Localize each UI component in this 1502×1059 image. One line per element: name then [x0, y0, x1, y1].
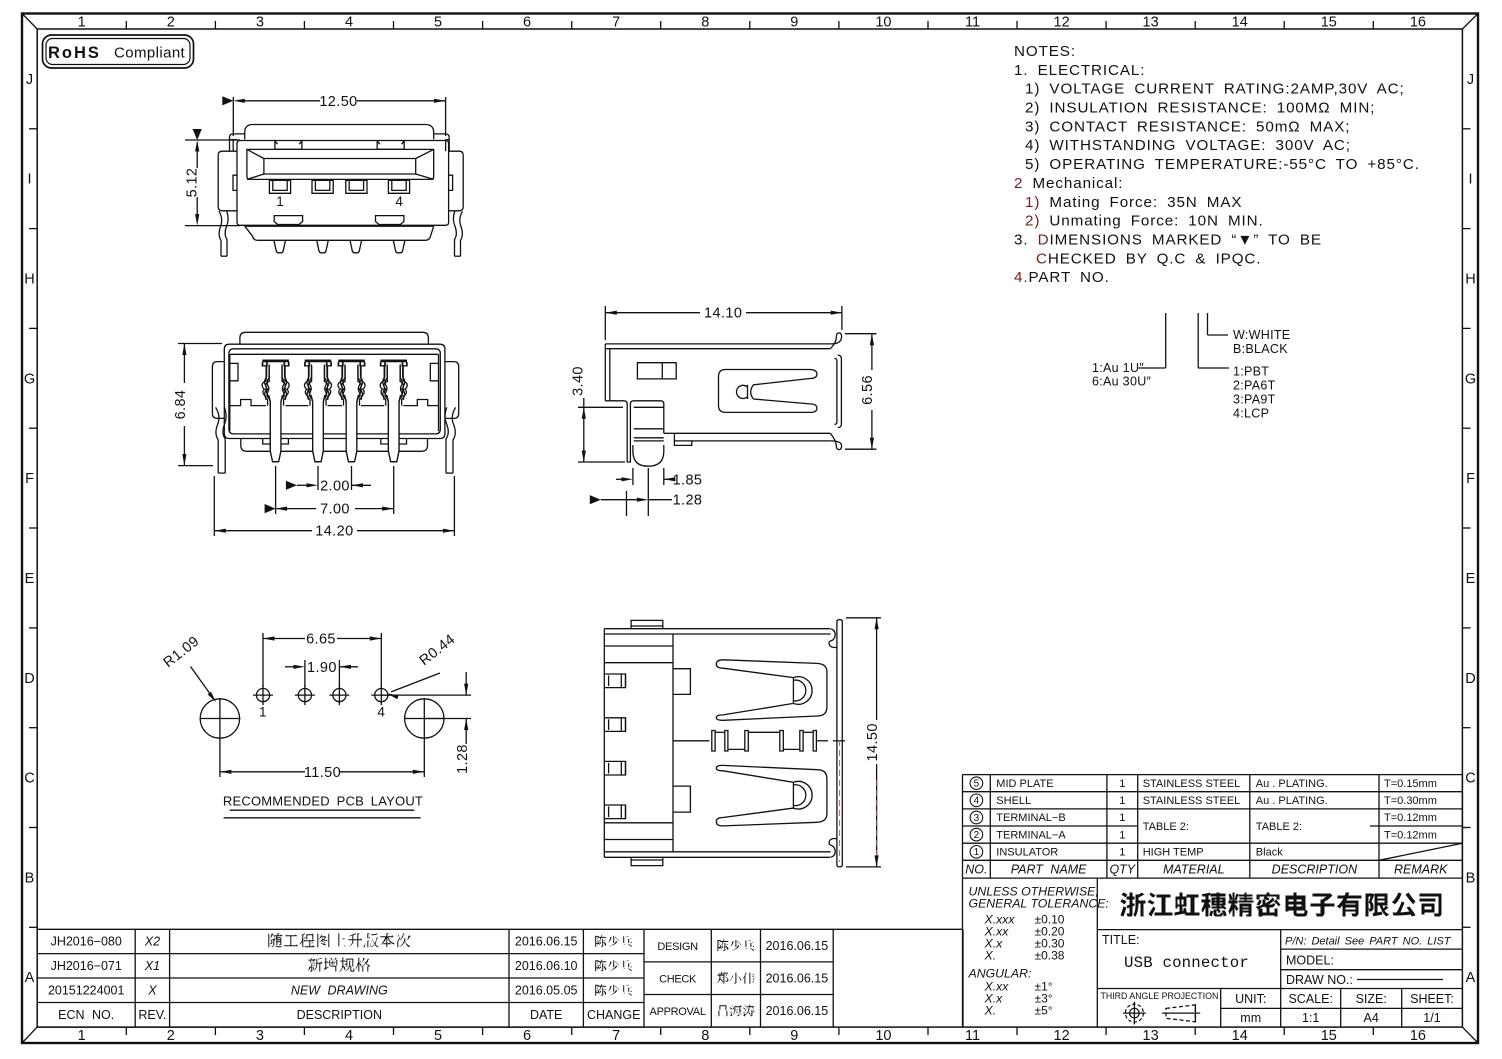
right wall hooks: [830, 333, 841, 349]
svg-text:1.28: 1.28: [455, 744, 471, 774]
svg-text:W:WHITE: W:WHITE: [1233, 328, 1290, 342]
svg-text:APPROVAL: APPROVAL: [650, 1006, 706, 1018]
svg-text:2:PA6T: 2:PA6T: [1233, 379, 1276, 393]
svg-text:1: 1: [1119, 795, 1125, 807]
svg-text:B: B: [1466, 870, 1476, 886]
svg-text:11: 11: [965, 15, 980, 31]
side latch windows: [233, 175, 237, 190]
svg-text:A: A: [1466, 970, 1476, 986]
svg-text:X2: X2: [144, 935, 160, 949]
dimension 6.56: [845, 333, 877, 335]
rear legs: [216, 407, 219, 473]
svg-text:X1: X1: [144, 959, 160, 973]
svg-text:4: 4: [974, 796, 980, 807]
svg-text:TERMINAL−A: TERMINAL−A: [996, 829, 1066, 841]
insulator block: [230, 353, 439, 355]
dimension 1.85: [632, 468, 634, 485]
top tabs: [631, 620, 663, 628]
dimension 12.50: [232, 97, 234, 136]
side wings: [218, 151, 237, 211]
mounting legs: [219, 211, 222, 256]
svg-text:mm: mm: [1240, 1011, 1261, 1025]
rear view: [173, 332, 459, 539]
approval table: [644, 929, 963, 1027]
svg-text:THIRD ANGLE PROJECTION: THIRD ANGLE PROJECTION: [1101, 991, 1219, 1001]
svg-text:1) VOLTAGE CURRENT RATING:2AMP: 1) VOLTAGE CURRENT RATING:2AMP,30V AC;: [1025, 81, 1405, 98]
svg-text:I: I: [27, 172, 31, 188]
svg-text:8: 8: [701, 15, 709, 31]
svg-text:H: H: [24, 272, 34, 288]
terminals: [262, 360, 289, 363]
svg-text:1: 1: [974, 847, 980, 858]
svg-text:1) Mating Force: 35N MAX: 1) Mating Force: 35N MAX: [1025, 194, 1242, 211]
notes text block: [1014, 43, 1420, 286]
rear top flange: [240, 332, 429, 344]
bottom pins: [274, 240, 286, 253]
svg-text:3: 3: [256, 1028, 264, 1044]
svg-text:5: 5: [974, 779, 980, 790]
svg-text:X.: X.: [984, 949, 997, 963]
side shell body: [605, 343, 831, 345]
rear bottom flange: [241, 439, 428, 452]
pin tail slots: [604, 674, 625, 688]
svg-text:T=0.12mm: T=0.12mm: [1384, 812, 1437, 824]
svg-text:CHECK: CHECK: [659, 973, 697, 985]
svg-text:11.50: 11.50: [304, 765, 341, 781]
bottom notches: [274, 216, 302, 225]
svg-text:Compliant: Compliant: [114, 45, 186, 62]
title block company name: [1097, 893, 1462, 930]
svg-text:A4: A4: [1364, 1011, 1379, 1025]
svg-text:SIZE:: SIZE:: [1356, 992, 1387, 1006]
svg-text:13: 13: [1143, 1028, 1159, 1044]
svg-text:12.50: 12.50: [319, 94, 357, 110]
svg-text:RoHS: RoHS: [48, 44, 101, 62]
svg-text:UNIT:: UNIT:: [1235, 992, 1266, 1006]
svg-text:2: 2: [974, 830, 980, 841]
svg-text:F: F: [1466, 471, 1475, 487]
svg-text:MODEL:: MODEL:: [1286, 954, 1334, 968]
svg-text:20151224001: 20151224001: [48, 984, 125, 998]
dimension 14.10: [604, 306, 606, 340]
svg-text:±5°: ±5°: [1035, 1004, 1053, 1018]
svg-text:G: G: [1465, 371, 1476, 387]
svg-text:REMARK: REMARK: [1394, 862, 1448, 876]
svg-text:1: 1: [259, 705, 267, 720]
svg-text:T=0.30mm: T=0.30mm: [1384, 795, 1437, 807]
svg-text:3: 3: [256, 15, 264, 31]
svg-text:H: H: [1465, 272, 1475, 288]
svg-text:7: 7: [612, 1028, 620, 1044]
svg-text:2) Unmating Force: 10N MIN.: 2) Unmating Force: 10N MIN.: [1025, 213, 1264, 230]
svg-text:GENERAL TOLERANCE:: GENERAL TOLERANCE:: [969, 897, 1109, 911]
svg-text:C: C: [24, 771, 34, 787]
svg-text:2 Mechanical:: 2 Mechanical:: [1014, 175, 1123, 192]
parts table: [963, 775, 1463, 879]
svg-text:12: 12: [1054, 15, 1070, 31]
svg-text:G: G: [24, 371, 35, 387]
svg-text:15: 15: [1321, 15, 1337, 31]
svg-text:CHANGE: CHANGE: [587, 1008, 640, 1022]
svg-text:3. DIMENSIONS MARKED “▼” TO BE: 3. DIMENSIONS MARKED “▼” TO BE: [1014, 232, 1322, 249]
svg-text:T=0.15mm: T=0.15mm: [1384, 778, 1437, 790]
center bosses: [673, 669, 690, 695]
svg-text:6.65: 6.65: [306, 632, 336, 648]
svg-text:1/1: 1/1: [1423, 1011, 1440, 1025]
svg-text:1: 1: [1119, 847, 1125, 859]
svg-text:4) WITHSTANDING VOLTAGE: 300V: 4) WITHSTANDING VOLTAGE: 300V AC;: [1025, 137, 1351, 154]
svg-text:5: 5: [434, 1028, 442, 1044]
bottom wall: [674, 432, 830, 434]
svg-text:PART NAME: PART NAME: [1011, 862, 1087, 876]
svg-text:14: 14: [1232, 1028, 1248, 1044]
svg-text:1.28: 1.28: [673, 493, 703, 509]
svg-text:4: 4: [377, 705, 385, 720]
svg-text:DESCRIPTION: DESCRIPTION: [1272, 862, 1358, 876]
contact windows 1-4: [269, 180, 290, 193]
svg-text:2: 2: [167, 1028, 175, 1044]
tolerance block: [963, 878, 1109, 1027]
svg-text:TITLE:: TITLE:: [1102, 933, 1140, 947]
svg-text:2) INSULATION RESISTANCE: 100M: 2) INSULATION RESISTANCE: 100MΩ MIN;: [1025, 100, 1375, 117]
dimension 1.28 pcb: [465, 672, 467, 695]
side view: [571, 306, 877, 516]
dimension 1.90: [304, 660, 306, 687]
svg-text:12: 12: [1054, 1028, 1070, 1044]
svg-text:D: D: [1465, 671, 1475, 687]
svg-text:1: 1: [78, 15, 86, 31]
svg-text:STAINLESS STEEL: STAINLESS STEEL: [1143, 778, 1241, 790]
svg-text:ANGULAR:: ANGULAR:: [968, 967, 1032, 981]
svg-text:5.12: 5.12: [185, 168, 201, 198]
svg-text:2016.06.15: 2016.06.15: [766, 939, 829, 953]
svg-text:USB connector: USB connector: [1124, 954, 1249, 972]
right shell plate: [836, 622, 838, 866]
rear bottom tabs: [263, 439, 289, 447]
svg-text:Au . PLATING.: Au . PLATING.: [1256, 795, 1328, 807]
dimension 11.50: [219, 739, 221, 777]
latch hole: [637, 363, 676, 379]
svg-text:JH2016−080: JH2016−080: [51, 935, 122, 949]
svg-text:14: 14: [1232, 15, 1248, 31]
svg-text:1:Au 1U″: 1:Au 1U″: [1092, 361, 1144, 375]
svg-text:NEW DRAWING: NEW DRAWING: [291, 984, 388, 998]
top view insulator: [604, 628, 830, 630]
svg-text:2.00: 2.00: [320, 478, 350, 494]
svg-text:3.40: 3.40: [571, 366, 587, 396]
mounting hole right: [405, 699, 444, 738]
svg-text:3: 3: [974, 813, 980, 824]
svg-text:Au . PLATING.: Au . PLATING.: [1256, 778, 1328, 790]
svg-text:Black: Black: [1256, 847, 1283, 859]
dimension 6.65: [262, 633, 264, 687]
svg-text:8: 8: [701, 1028, 709, 1044]
svg-text:E: E: [25, 571, 35, 587]
svg-text:DATE: DATE: [530, 1008, 562, 1022]
svg-text:5: 5: [434, 15, 442, 31]
svg-text:13: 13: [1143, 15, 1159, 31]
svg-text:±0.38: ±0.38: [1035, 949, 1065, 963]
back flange: [245, 125, 434, 140]
svg-text:6:Au 30U″: 6:Au 30U″: [1092, 375, 1152, 389]
svg-text:1:PBT: 1:PBT: [1233, 365, 1269, 379]
top view: [604, 618, 881, 867]
svg-text:J: J: [26, 72, 33, 88]
svg-text:2016.06.15: 2016.06.15: [515, 935, 578, 949]
svg-text:2016.06.15: 2016.06.15: [766, 1004, 829, 1018]
dimension 3.40: [578, 406, 623, 408]
svg-text:6: 6: [523, 1028, 531, 1044]
rear shell outline: [224, 344, 445, 438]
spring fork top: [716, 660, 827, 721]
svg-text:A: A: [25, 970, 35, 986]
svg-text:14.10: 14.10: [704, 306, 742, 322]
dimension 6.84: [178, 343, 222, 345]
pcb layout view: [161, 631, 471, 817]
svg-text:DRAW NO.:: DRAW NO.:: [1286, 973, 1353, 987]
svg-text:SHEET:: SHEET:: [1410, 992, 1454, 1006]
svg-text:6.56: 6.56: [860, 375, 876, 405]
svg-text:4:LCP: 4:LCP: [1233, 407, 1269, 421]
svg-text:DESCRIPTION: DESCRIPTION: [297, 1008, 382, 1022]
revision table: [37, 929, 644, 1027]
svg-text:1:1: 1:1: [1302, 1011, 1319, 1025]
dimension 1.28: [626, 491, 628, 516]
svg-text:REV.: REV.: [138, 1008, 166, 1022]
dimension 7.00: [275, 466, 277, 514]
svg-text:RECOMMENDED PCB LAYOUT: RECOMMENDED PCB LAYOUT: [223, 794, 423, 809]
svg-text:QTY: QTY: [1109, 862, 1136, 876]
svg-text:5) OPERATING TEMPERATURE:-55°C: 5) OPERATING TEMPERATURE:-55°C TO +85°C.: [1025, 156, 1420, 173]
svg-text:TABLE 2:: TABLE 2:: [1143, 821, 1189, 833]
svg-text:2016.06.10: 2016.06.10: [515, 959, 578, 973]
svg-text:10: 10: [875, 1028, 891, 1044]
svg-text:2: 2: [167, 15, 175, 31]
terminals: [263, 360, 289, 363]
svg-text:3) CONTACT RESISTANCE: 50mΩ MA: 3) CONTACT RESISTANCE: 50mΩ MAX;: [1025, 118, 1350, 135]
front wall: [605, 401, 640, 462]
dimension 2.00: [317, 466, 319, 490]
svg-text:HIGH TEMP: HIGH TEMP: [1143, 847, 1204, 859]
svg-text:1: 1: [276, 194, 284, 209]
svg-text:DESIGN: DESIGN: [657, 941, 698, 953]
svg-text:D: D: [24, 671, 34, 687]
dimension 5.12: [185, 139, 240, 141]
insulator floor: [230, 400, 266, 406]
svg-text:1. ELECTRICAL:: 1. ELECTRICAL:: [1014, 62, 1145, 79]
mounting hole left R1.09: [200, 699, 239, 738]
svg-text:1: 1: [1119, 812, 1125, 824]
shell step tabs: [230, 134, 245, 140]
shell front face: [237, 141, 449, 226]
svg-text:1: 1: [78, 1028, 86, 1044]
svg-text:6: 6: [523, 15, 531, 31]
top notches: [275, 141, 302, 150]
svg-text:4: 4: [345, 15, 353, 31]
svg-text:B: B: [25, 870, 35, 886]
dimension 14.50: [846, 617, 881, 619]
svg-text:1.85: 1.85: [673, 472, 703, 488]
svg-text:7: 7: [612, 15, 620, 31]
svg-text:15: 15: [1321, 1028, 1337, 1044]
dimension 14.20: [213, 476, 215, 536]
svg-text:MATERIAL: MATERIAL: [1163, 862, 1225, 876]
svg-text:4.PART NO.: 4.PART NO.: [1014, 269, 1110, 286]
svg-text:SHELL: SHELL: [996, 795, 1031, 807]
svg-text:SCALE:: SCALE:: [1288, 992, 1332, 1006]
svg-text:10: 10: [875, 15, 891, 31]
spring contact fork: [719, 370, 817, 413]
svg-text:E: E: [1466, 571, 1476, 587]
svg-text:TERMINAL−B: TERMINAL−B: [996, 812, 1065, 824]
svg-text:9: 9: [790, 1028, 798, 1044]
RoHS compliant logo: [43, 35, 194, 68]
svg-text:CHECKED BY Q.C & IPQC.: CHECKED BY Q.C & IPQC.: [1036, 250, 1261, 267]
svg-text:1: 1: [1119, 829, 1125, 841]
spring fork bottom: [716, 765, 827, 826]
svg-text:6.84: 6.84: [173, 390, 189, 420]
svg-text:14.20: 14.20: [315, 524, 353, 540]
front view: [185, 94, 464, 256]
svg-text:TABLE 2:: TABLE 2:: [1256, 821, 1302, 833]
svg-text:NO.: NO.: [965, 862, 987, 876]
svg-text:J: J: [1467, 72, 1474, 88]
middle clips: [673, 740, 710, 742]
tongue opening: [247, 149, 434, 179]
svg-text:ECN NO.: ECN NO.: [58, 1008, 114, 1022]
part number tree: [1092, 313, 1290, 421]
svg-text:JH2016−071: JH2016−071: [51, 959, 122, 973]
svg-text:NOTES:: NOTES:: [1014, 43, 1076, 60]
svg-text:14.50: 14.50: [865, 723, 881, 761]
svg-text:INSULATOR: INSULATOR: [996, 847, 1058, 859]
svg-text:4: 4: [345, 1028, 353, 1044]
svg-text:4: 4: [395, 194, 403, 209]
svg-text:7.00: 7.00: [320, 502, 350, 518]
svg-text:I: I: [1468, 172, 1472, 188]
svg-text:16: 16: [1410, 1028, 1426, 1044]
svg-text:F: F: [25, 471, 34, 487]
svg-text:2016.05.05: 2016.05.05: [515, 984, 578, 998]
svg-text:T=0.12mm: T=0.12mm: [1384, 829, 1437, 841]
title block fields: [1097, 930, 1462, 1028]
svg-text:16: 16: [1410, 15, 1426, 31]
rear side wings: [212, 362, 224, 419]
svg-text:1: 1: [1119, 778, 1125, 790]
svg-text:B:BLACK: B:BLACK: [1233, 342, 1288, 356]
svg-text:9: 9: [790, 15, 798, 31]
svg-text:P/N: Detail See PART NO. LIST: P/N: Detail See PART NO. LIST: [1285, 936, 1452, 948]
svg-text:C: C: [1465, 771, 1475, 787]
svg-text:X: X: [147, 984, 157, 998]
svg-text:1.90: 1.90: [307, 660, 337, 676]
bottom flange: [245, 226, 434, 240]
svg-text:MID PLATE: MID PLATE: [996, 778, 1053, 790]
svg-text:3:PA9T: 3:PA9T: [1233, 393, 1276, 407]
svg-text:STAINLESS STEEL: STAINLESS STEEL: [1143, 795, 1241, 807]
svg-text:11: 11: [965, 1028, 980, 1044]
svg-text:2016.06.15: 2016.06.15: [766, 971, 829, 985]
svg-text:X.: X.: [984, 1004, 997, 1018]
pin holes 1-4: [256, 689, 269, 702]
